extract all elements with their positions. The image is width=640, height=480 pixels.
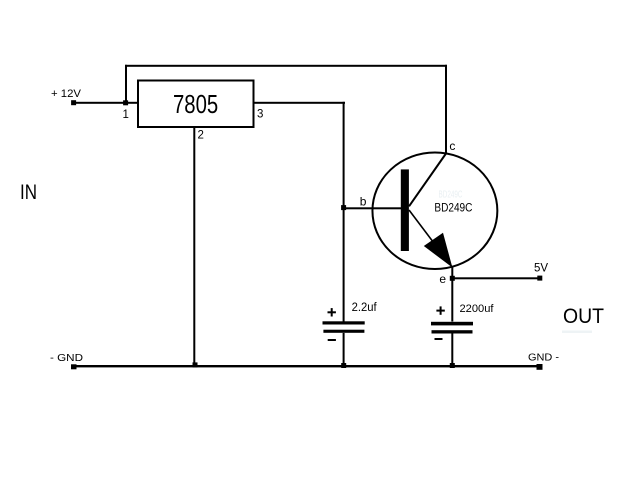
node ground C2 junction xyxy=(450,363,455,368)
svg-text:2: 2 xyxy=(198,129,204,141)
svg-text:BD249C: BD249C xyxy=(439,190,463,201)
node input terminal xyxy=(71,100,76,105)
capacitor C2 plus sign xyxy=(436,310,444,312)
capacitor C1 top plate xyxy=(323,321,365,324)
node ground pin2 junction xyxy=(193,362,198,367)
svg-text:2.2uf: 2.2uf xyxy=(352,302,378,314)
wire pin3 vertical down to cap C1 xyxy=(343,102,345,322)
svg-text:GND -: GND - xyxy=(528,352,560,364)
svg-text:- GND: - GND xyxy=(50,352,83,364)
svg-text:3: 3 xyxy=(257,109,263,121)
wire top horizontal bypass xyxy=(125,65,447,67)
wire collector vertical drop xyxy=(445,65,447,155)
svg-text:e: e xyxy=(439,272,446,286)
wire pin2 vertical to ground xyxy=(193,127,195,367)
transistor Q1 emitter arrowhead xyxy=(424,233,453,268)
capacitor C1 plus sign xyxy=(328,311,336,313)
svg-text:OUT: OUT xyxy=(563,305,604,328)
transistor Q1 emitter stroke xyxy=(409,210,452,268)
node ground C1 junction xyxy=(341,363,346,368)
capacitor C2 minus sign xyxy=(435,338,443,340)
wire emitter vertical to cap C2 xyxy=(451,267,453,322)
wire base horizontal xyxy=(343,207,401,209)
capacitor C1 bottom plate xyxy=(323,330,364,333)
svg-text:IN: IN xyxy=(20,181,37,204)
regulator U1 7805 body xyxy=(138,81,254,128)
wire ground bus horizontal xyxy=(71,365,542,367)
node emitter junction xyxy=(450,276,455,281)
node pin1 junction xyxy=(123,100,128,105)
wire input +12V horizontal xyxy=(74,102,126,104)
svg-text:+ 12V: + 12V xyxy=(51,88,82,100)
svg-text:b: b xyxy=(360,195,367,209)
svg-text:2200uf: 2200uf xyxy=(460,303,495,315)
node ground left terminal xyxy=(71,364,77,369)
capacitor C2 bottom plate xyxy=(432,330,473,333)
svg-text:c: c xyxy=(449,139,455,153)
capacitor C1 minus sign xyxy=(328,339,336,341)
wire C1 bottom to ground xyxy=(343,333,345,367)
svg-text:BD249C: BD249C xyxy=(434,200,472,214)
transistor Q1 collector stroke xyxy=(409,154,446,207)
node 5V terminal xyxy=(537,276,542,281)
wire 5V output horizontal xyxy=(452,277,540,279)
svg-text:7805: 7805 xyxy=(173,89,218,119)
svg-text:5V: 5V xyxy=(534,262,548,274)
ghost artifact below OUT xyxy=(562,331,592,334)
node base junction xyxy=(341,205,346,210)
transistor Q1 base bar xyxy=(401,169,409,251)
wire junction up vertical xyxy=(125,65,127,103)
wire pin1 to box xyxy=(126,102,138,104)
transistor Q1 circle xyxy=(372,153,497,270)
wire pin3 horizontal xyxy=(253,102,345,104)
wire C2 bottom to ground xyxy=(451,334,453,368)
capacitor C2 top plate xyxy=(431,322,473,326)
svg-text:1: 1 xyxy=(123,109,129,121)
node ground right terminal xyxy=(537,364,543,370)
